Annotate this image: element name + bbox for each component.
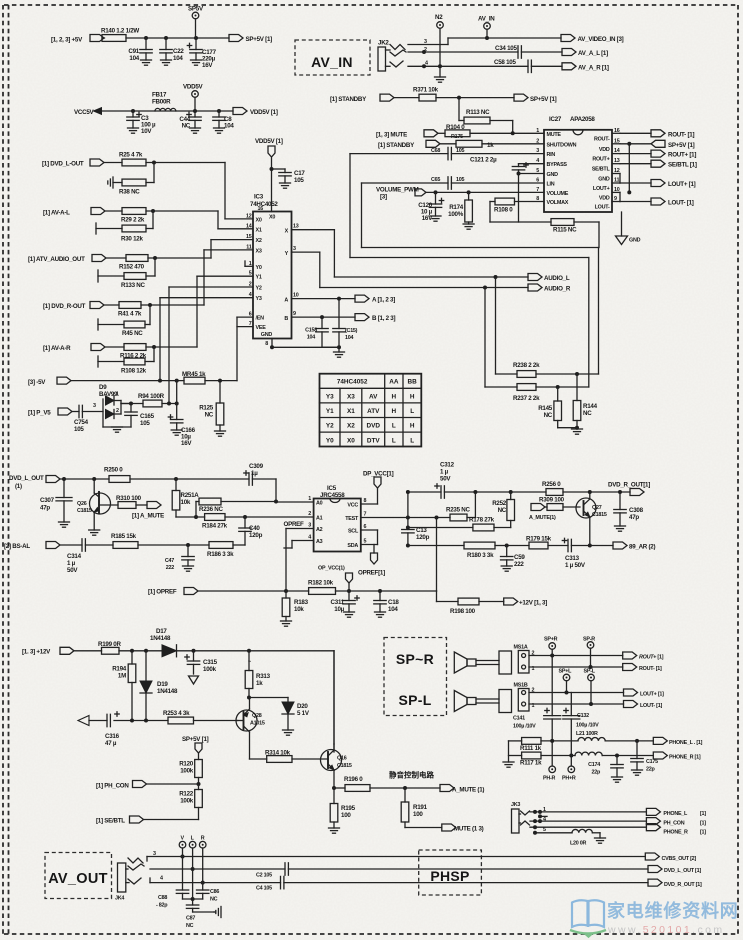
svg-text:R191: R191 xyxy=(413,804,428,811)
svg-text:NC: NC xyxy=(210,897,218,903)
svg-text:11: 11 xyxy=(246,244,251,250)
capacitor C4 xyxy=(256,876,284,891)
svg-text:NC: NC xyxy=(205,412,214,419)
connector PH_CON [1] jk3 xyxy=(646,818,706,827)
ground C315 triangle xyxy=(189,676,199,684)
resistor R250 xyxy=(104,467,130,483)
svg-text:R175: R175 xyxy=(451,134,463,140)
svg-text:A3: A3 xyxy=(316,539,323,545)
connector DVD_R_OUT [1] out xyxy=(648,879,702,888)
svg-text:[1] A_MUTE: [1] A_MUTE xyxy=(132,513,164,520)
wire phone L row xyxy=(509,739,654,743)
resistor R195 xyxy=(330,788,355,828)
svg-text:- 82p: - 82p xyxy=(156,903,168,909)
svg-text:OP_VCC(1): OP_VCC(1) xyxy=(318,566,345,572)
svg-text:2: 2 xyxy=(308,511,311,517)
svg-text:22p: 22p xyxy=(646,767,655,773)
svg-text:1k: 1k xyxy=(256,680,263,687)
svg-text:AA: AA xyxy=(389,379,399,386)
svg-text:静音控制电路: 静音控制电路 xyxy=(389,770,434,780)
wire phone R row xyxy=(509,754,654,758)
capacitor C316 xyxy=(105,712,120,747)
svg-text:PHONE_R: PHONE_R xyxy=(663,830,688,836)
connector LOUT- [1] out xyxy=(624,701,663,710)
svg-text:12: 12 xyxy=(246,213,252,219)
connector [1] AV-A-L xyxy=(43,208,105,217)
svg-text:A_MUTE (1): A_MUTE (1) xyxy=(452,787,484,794)
IC3 left pin labels xyxy=(246,213,275,331)
svg-text:[1] DVD_L-OUT: [1] DVD_L-OUT xyxy=(42,161,84,168)
capacitor C65 xyxy=(431,177,464,189)
svg-text:C165: C165 xyxy=(140,413,155,420)
testpoint SP5V xyxy=(188,6,204,39)
svg-text:C18: C18 xyxy=(388,599,399,606)
svg-text:89_AR (2): 89_AR (2) xyxy=(629,544,655,551)
svg-text:GND: GND xyxy=(598,177,610,183)
svg-text:L20 0R: L20 0R xyxy=(570,841,587,847)
svg-text:C34 105: C34 105 xyxy=(495,45,517,52)
testpoint AV_IN xyxy=(478,16,495,41)
wire IC3 GND pin8 xyxy=(261,332,341,352)
connector DVD_L_OUT [1] out xyxy=(648,866,701,875)
connector VDD5V [1] xyxy=(233,108,278,117)
svg-text:105: 105 xyxy=(294,177,304,184)
svg-text:104: 104 xyxy=(129,55,139,62)
connector SP+5V [1] bottom xyxy=(182,736,209,760)
svg-text:R195: R195 xyxy=(341,805,356,812)
svg-text:[1] ATV_AUDIO_OUT: [1] ATV_AUDIO_OUT xyxy=(28,256,85,263)
svg-text:4: 4 xyxy=(160,876,163,882)
connector B [1,2,3] xyxy=(355,314,395,322)
svg-text:H: H xyxy=(392,408,397,415)
wire AV-A-L row xyxy=(106,209,254,229)
svg-text:AV_IN: AV_IN xyxy=(478,16,495,23)
wire cap rail xyxy=(183,897,203,901)
wire SDA to OPREF[1] xyxy=(361,545,378,554)
resistor R125 xyxy=(199,381,224,431)
wire Y output xyxy=(285,246,528,290)
resistor R310 xyxy=(99,495,147,508)
svg-text:16V: 16V xyxy=(181,440,192,447)
IC27 right pin labels xyxy=(592,128,620,211)
testpoint SP+L xyxy=(559,669,573,695)
svg-text:10k: 10k xyxy=(181,499,191,506)
capacitor C166 xyxy=(168,404,195,448)
ground JK4 caps xyxy=(214,907,221,918)
svg-text:PHONE_L . [1]: PHONE_L . [1] xyxy=(669,740,703,746)
svg-text:C309: C309 xyxy=(249,463,264,470)
svg-text:3: 3 xyxy=(424,39,427,45)
capacitor C87 xyxy=(186,869,199,929)
wire EN-VEE tie xyxy=(237,317,253,381)
connector VOLUME_PWM [3] xyxy=(376,187,426,201)
svg-text:13: 13 xyxy=(293,224,299,230)
svg-text:R309 100: R309 100 xyxy=(539,497,565,504)
connector +12V [1,3] xyxy=(504,598,548,607)
resistor R29 xyxy=(121,208,146,224)
wire outer loop LIN xyxy=(362,183,599,374)
testpoint VDD5V xyxy=(183,84,204,112)
connector AUDIO_L xyxy=(528,274,570,283)
connector [1] ATV_AUDIO_OUT xyxy=(28,255,106,264)
connector 89_AR [2] xyxy=(613,542,655,551)
wire VDD vertical xyxy=(627,142,631,195)
watermark book icon xyxy=(570,900,606,936)
svg-text:A1015: A1015 xyxy=(250,721,265,727)
svg-text:[1]: [1] xyxy=(700,830,706,836)
capacitor C15 xyxy=(333,299,358,348)
resistor R237 xyxy=(485,384,589,402)
resistor R152 xyxy=(119,255,148,271)
ground C18 xyxy=(375,612,386,617)
svg-text:Y2: Y2 xyxy=(326,423,334,430)
svg-text:R111 1k: R111 1k xyxy=(520,745,542,752)
svg-text:X3: X3 xyxy=(347,394,355,401)
svg-text:R237 2 2k: R237 2 2k xyxy=(513,395,540,402)
svg-text:AV: AV xyxy=(369,394,378,401)
svg-text:R145: R145 xyxy=(538,405,553,412)
svg-text:C313: C313 xyxy=(565,555,580,562)
ground N2 xyxy=(435,77,446,82)
capacitor C141 xyxy=(513,656,561,767)
IC27 left pin labels xyxy=(536,128,576,206)
svg-text:X2: X2 xyxy=(347,423,355,430)
svg-text:X3: X3 xyxy=(256,248,262,254)
svg-text:104: 104 xyxy=(388,606,398,613)
svg-text:VDD: VDD xyxy=(599,147,610,153)
svg-text:R140 1.2 1/2W: R140 1.2 1/2W xyxy=(101,28,139,35)
testpoint V xyxy=(179,836,186,859)
connector [1] PH_CON xyxy=(96,781,199,790)
svg-text:PHSP: PHSP xyxy=(430,868,469,884)
capacitor C91 xyxy=(128,38,152,62)
svg-text:100: 100 xyxy=(341,812,351,819)
svg-text:Y3: Y3 xyxy=(326,394,334,401)
wire A1 row xyxy=(176,515,314,519)
label IC3 xyxy=(250,194,278,209)
connector DVD_L_OUT [1] xyxy=(9,475,60,490)
svg-text:[3]: [3] xyxy=(380,194,387,201)
svg-text:X1: X1 xyxy=(347,408,355,415)
svg-text:VDD5V: VDD5V xyxy=(183,84,204,91)
capacitor C312 xyxy=(435,462,455,499)
connector PHONE_R [1] xyxy=(653,752,701,761)
connector [2] BS-AL xyxy=(4,542,60,551)
testpoint L xyxy=(189,836,196,872)
testpoint PH-R xyxy=(543,766,556,782)
connector LOUT+ [1] xyxy=(620,180,696,189)
svg-text:C174: C174 xyxy=(588,762,600,768)
svg-text:8: 8 xyxy=(265,341,268,347)
svg-text:7: 7 xyxy=(249,321,252,327)
wire +5V rail xyxy=(102,37,229,39)
svg-text:SP-L: SP-L xyxy=(584,669,596,675)
svg-text:[1. 3] +12V: [1. 3] +12V xyxy=(22,649,51,656)
svg-text:SP5V: SP5V xyxy=(188,6,204,13)
speaker SP-R xyxy=(454,651,511,674)
resistor R236 xyxy=(196,498,278,517)
svg-text:16V: 16V xyxy=(202,62,213,69)
capacitor C315 xyxy=(185,651,218,674)
svg-text:ROUT-: ROUT- xyxy=(594,136,610,142)
ground R111 rail xyxy=(503,762,514,767)
ground C17 xyxy=(280,183,291,188)
connector [1] P_V5 xyxy=(28,408,72,417)
svg-text:15: 15 xyxy=(246,234,252,240)
resistor R371 xyxy=(413,87,439,102)
resistor R256 xyxy=(542,481,563,495)
ground C44 xyxy=(190,128,201,133)
resistor R178 xyxy=(408,517,511,531)
svg-text:100k: 100k xyxy=(180,768,194,775)
svg-text:VDD5V [1]: VDD5V [1] xyxy=(255,138,283,145)
svg-text:H: H xyxy=(410,394,415,401)
svg-text:A1: A1 xyxy=(316,516,323,522)
jack JK3 xyxy=(511,802,530,833)
svg-text:100µ /10V: 100µ /10V xyxy=(513,724,536,730)
svg-text:6: 6 xyxy=(249,312,252,318)
svg-text:(1): (1) xyxy=(15,483,22,490)
svg-text:C68: C68 xyxy=(431,148,440,154)
svg-text:2: 2 xyxy=(249,282,252,288)
wire mute rail xyxy=(89,719,238,723)
svg-text:[1, 3] MUTE: [1, 3] MUTE xyxy=(376,132,407,139)
resistor R115 xyxy=(551,219,577,234)
wire B output xyxy=(284,311,355,322)
svg-text:C40: C40 xyxy=(249,525,260,532)
svg-text:L: L xyxy=(410,408,414,415)
svg-text:A0: A0 xyxy=(316,501,323,507)
svg-text:R29 2 2k: R29 2 2k xyxy=(121,217,145,224)
transistor Q28 xyxy=(236,698,265,760)
svg-text:R250 0: R250 0 xyxy=(104,467,123,474)
svg-text:IC3: IC3 xyxy=(254,194,264,201)
resistor R314 xyxy=(250,750,329,763)
svg-text:C88: C88 xyxy=(158,895,167,901)
svg-text:SP+5V [1]: SP+5V [1] xyxy=(246,36,273,43)
connector ROUT- [1] xyxy=(620,130,694,139)
svg-text:1k: 1k xyxy=(487,142,494,149)
capacitor C58 xyxy=(494,59,562,73)
wire RIN pin3 xyxy=(350,153,544,155)
node arrow left xyxy=(78,716,89,726)
node +5V junctions xyxy=(144,36,198,40)
svg-text:AV_VIDEO_IN [3]: AV_VIDEO_IN [3] xyxy=(578,36,624,43)
watermark url xyxy=(607,924,725,936)
svg-text:PH-R: PH-R xyxy=(543,776,556,782)
capacitor C2 xyxy=(256,863,288,879)
svg-text:1N4148: 1N4148 xyxy=(150,635,171,642)
connector MUTE (1,3) xyxy=(405,824,484,833)
svg-text:SP+R: SP+R xyxy=(544,637,558,643)
transistor Q16 xyxy=(321,651,352,790)
resistor R120 xyxy=(179,760,202,787)
svg-text:R94 100R: R94 100R xyxy=(138,393,165,400)
svg-text:C4 105: C4 105 xyxy=(256,886,272,892)
connector A [1,2,3] xyxy=(355,295,395,303)
speaker SP-L xyxy=(454,690,511,713)
svg-text:R120: R120 xyxy=(179,761,194,768)
svg-text:Q27: Q27 xyxy=(592,505,602,511)
wire standby row xyxy=(395,97,515,99)
wire JK2 pin3 to AV_VIDEO_IN xyxy=(408,38,561,45)
svg-text:5: 5 xyxy=(249,271,252,277)
svg-text:DVD_L_OUT: DVD_L_OUT xyxy=(9,475,44,482)
svg-text:C314: C314 xyxy=(67,553,82,560)
resistor R186 xyxy=(207,531,245,558)
svg-text:C65: C65 xyxy=(431,177,440,183)
wire LIN pin6 xyxy=(362,182,545,184)
resistor R41 xyxy=(118,302,142,318)
connector [1] OPREF xyxy=(148,588,198,596)
resistor R198 xyxy=(450,598,479,615)
capacitor C313 xyxy=(562,538,586,569)
wire JK2 pin4 xyxy=(408,61,528,69)
testpoint N2 xyxy=(435,14,443,77)
svg-text:C311: C311 xyxy=(331,599,345,606)
wire A3 stub xyxy=(284,541,314,549)
IC27 right pin stubs xyxy=(612,133,620,201)
svg-text:C312: C312 xyxy=(440,462,455,469)
connector +5V [1,2,3] xyxy=(51,35,104,44)
svg-text:C87: C87 xyxy=(186,916,195,922)
node VCC5V arrow xyxy=(74,108,102,116)
svg-text:[1] SE/BTL: [1] SE/BTL xyxy=(96,818,125,825)
connector OP_VCC [1] xyxy=(318,566,353,592)
svg-text:R25 4 7k: R25 4 7k xyxy=(119,152,143,159)
wire R115 rail xyxy=(490,222,599,248)
svg-text:LIN: LIN xyxy=(547,182,555,188)
svg-text:L: L xyxy=(410,437,414,444)
svg-text:RIN: RIN xyxy=(547,152,556,158)
svg-text:MS1B: MS1B xyxy=(514,683,528,689)
svg-text:C86: C86 xyxy=(210,889,219,895)
svg-text:74HC4052: 74HC4052 xyxy=(337,379,368,386)
svg-text:1: 1 xyxy=(308,496,311,502)
svg-text:C315: C315 xyxy=(203,659,218,666)
resistor R45 xyxy=(98,305,150,337)
wire GND pin5 xyxy=(519,173,545,175)
wire VOLUME pin7 xyxy=(426,190,545,194)
svg-text:MS1A: MS1A xyxy=(514,645,528,651)
wire DVD_L_OUT row xyxy=(61,477,314,502)
svg-text:VCC: VCC xyxy=(347,503,358,509)
wire 89_AR row xyxy=(507,545,613,547)
jack JK4 xyxy=(115,858,144,902)
svg-text:D20: D20 xyxy=(297,703,308,710)
resistor R183 xyxy=(282,591,308,621)
connector MS1B xyxy=(514,683,624,712)
resistor R175 xyxy=(451,134,494,149)
svg-text:C2 105: C2 105 xyxy=(256,873,272,879)
svg-text:R179 15k: R179 15k xyxy=(526,536,552,543)
diode D20 zener xyxy=(282,698,310,731)
ground R38 xyxy=(108,177,113,188)
svg-text:DVD_L_OUT [1]: DVD_L_OUT [1] xyxy=(664,868,701,874)
svg-text:2: 2 xyxy=(116,408,119,414)
svg-text:GND: GND xyxy=(261,332,273,338)
connector SP+5V [1] amp xyxy=(620,140,695,149)
resistor R25 xyxy=(119,152,146,166)
testpoint SP-L xyxy=(584,669,596,707)
wire SCL stub xyxy=(361,530,378,545)
connector MS1A xyxy=(514,645,623,674)
svg-text:5 1V: 5 1V xyxy=(297,710,310,717)
svg-text:R113 NC: R113 NC xyxy=(466,109,490,116)
wire JK2 pin2 xyxy=(408,47,518,54)
connector [1] SE/BTL xyxy=(96,808,199,825)
svg-text:[3] -5V: [3] -5V xyxy=(28,379,46,386)
svg-text:[1] DVD_R-OUT: [1] DVD_R-OUT xyxy=(43,303,86,310)
wire VOLMAX pin8 xyxy=(515,201,545,203)
svg-text:C158: C158 xyxy=(305,328,317,334)
svg-text:3: 3 xyxy=(293,246,296,252)
capacitor C40 xyxy=(239,517,263,539)
svg-text:SE/BTL [1]: SE/BTL [1] xyxy=(668,162,697,169)
connector OPREF [1] pentagon xyxy=(358,553,385,577)
svg-text:D17: D17 xyxy=(156,628,167,635)
inductor L20 xyxy=(570,829,600,846)
IC3 pin Y0 stub xyxy=(245,261,253,266)
svg-text:1: 1 xyxy=(116,392,119,398)
svg-text:ROUT+ [1]: ROUT+ [1] xyxy=(639,655,664,661)
svg-text:www.520101.com: www.520101.com xyxy=(607,924,725,936)
svg-text:VOLUME_PWM: VOLUME_PWM xyxy=(376,187,419,194)
ground Q26 xyxy=(89,530,100,535)
wire JK3 pin1 xyxy=(530,807,646,814)
svg-text:Q16: Q16 xyxy=(337,756,347,762)
svg-text:AV_IN: AV_IN xyxy=(311,54,353,70)
SP-R SP-L dashed box xyxy=(384,638,447,716)
capacitor C132 xyxy=(563,693,599,767)
capacitor C121 xyxy=(470,157,528,170)
svg-text:R45 NC: R45 NC xyxy=(122,330,143,337)
svg-text:B: B xyxy=(284,316,288,322)
wire Y3 drop xyxy=(160,298,253,381)
wire to R113 xyxy=(459,98,513,134)
svg-text:C175: C175 xyxy=(646,759,658,765)
ground L20 xyxy=(595,838,606,843)
wire A2 OPREF xyxy=(284,521,314,591)
connector AV_VIDEO_IN [3] xyxy=(561,35,624,44)
ground C311 xyxy=(344,612,355,617)
svg-text:PH+R: PH+R xyxy=(562,776,576,782)
svg-text:50V: 50V xyxy=(67,567,78,574)
svg-text:R251A: R251A xyxy=(181,492,200,499)
svg-text:PHONE_R [1]: PHONE_R [1] xyxy=(669,755,701,761)
svg-text:100: 100 xyxy=(413,811,423,818)
resistor R194 xyxy=(112,651,136,721)
PHSP dashed box xyxy=(419,850,482,895)
ground IC3 xyxy=(334,352,345,357)
connector AUDIO_R xyxy=(528,284,571,293)
svg-text:L: L xyxy=(392,437,396,444)
svg-text:SP+L: SP+L xyxy=(559,669,573,675)
resistor R199 xyxy=(98,641,121,654)
svg-text:NC: NC xyxy=(583,410,592,417)
svg-text:NC: NC xyxy=(544,412,553,419)
jack JK2 xyxy=(378,40,406,72)
svg-text:[1] STANDBY: [1] STANDBY xyxy=(378,142,415,149)
svg-text:H: H xyxy=(392,394,397,401)
capacitor C18 xyxy=(374,591,400,613)
testpoint R xyxy=(199,836,206,885)
ferrite bead FB17 xyxy=(152,92,176,112)
svg-text:105: 105 xyxy=(74,426,84,433)
capacitor C120 xyxy=(418,192,443,222)
svg-text:104: 104 xyxy=(345,335,353,341)
svg-text:AV_A_R [1]: AV_A_R [1] xyxy=(578,65,609,72)
